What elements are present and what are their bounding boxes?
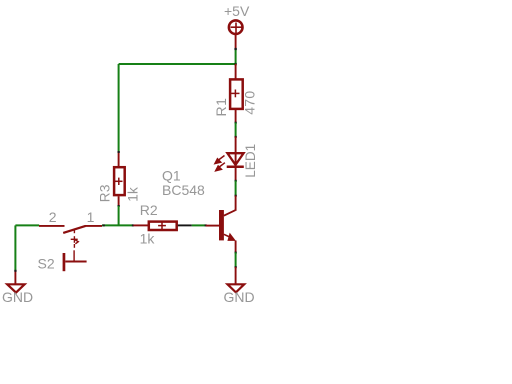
resistor R1 pin top [235, 64, 237, 79]
resistor R2 pin left [133, 224, 148, 226]
junction dot [235, 266, 237, 268]
junction dot [132, 224, 134, 226]
junction dot [235, 136, 237, 138]
+5V supply symbol [229, 20, 243, 34]
svg-text:1: 1 [87, 209, 95, 225]
wire net vertical to left GND [14, 225, 16, 270]
LED1 cathode pin [235, 167, 237, 181]
svg-text:R3: R3 [97, 184, 112, 202]
switch S2 lever [63, 226, 85, 233]
transistor Q1 emitter pin [235, 241, 237, 253]
ground pin right [235, 267, 237, 284]
transistor Q1 collector pin [235, 196, 237, 211]
LED1 light arrow 2 [215, 163, 225, 171]
svg-text:S2: S2 [38, 256, 55, 272]
resistor R1 pin bottom [235, 110, 237, 123]
resistor R1 [230, 79, 243, 109]
LED LED1 [227, 153, 244, 167]
junction dot [235, 180, 237, 182]
svg-text:R1: R1 [213, 98, 229, 117]
junction dot [235, 122, 237, 124]
junction dot [205, 224, 207, 226]
switch S2 pin 2 contact [39, 225, 65, 227]
resistor R2 [149, 222, 177, 230]
wire net R2 to Q1 base [192, 224, 206, 226]
svg-text:R2: R2 [140, 202, 158, 218]
switch S2 pin 1 contact [85, 225, 102, 227]
junction dot [118, 151, 120, 153]
LED1 light arrow 1 [215, 156, 225, 164]
transistor Q1 base pin [206, 225, 219, 227]
wire net R3 to base rail [118, 206, 120, 225]
junction dot [14, 270, 16, 272]
wire net LED1 to Q1 collector [235, 181, 237, 196]
svg-text:470: 470 [241, 91, 257, 115]
svg-text:BC548: BC548 [162, 182, 205, 198]
LED1 anode pin [235, 137, 237, 167]
wire net R1 to LED1 [235, 123, 237, 137]
pin wire from +5V symbol [235, 33, 237, 49]
resistor R3 pin bottom [118, 196, 120, 206]
ground symbol left [7, 284, 24, 292]
junction dot [235, 195, 237, 197]
svg-text:GND: GND [224, 289, 255, 305]
svg-text:GND: GND [2, 289, 33, 305]
ground symbol right [228, 284, 245, 292]
junction dot [234, 48, 236, 50]
wire net emitter to GND [235, 252, 237, 267]
svg-text:LED1: LED1 [243, 144, 258, 178]
svg-text:1k: 1k [140, 230, 156, 246]
wire net vertical left branch [118, 64, 120, 152]
switch S2 actuator [71, 230, 79, 262]
resistor R3 [114, 167, 125, 195]
resistor R3 pin top [118, 152, 120, 167]
svg-text:2: 2 [49, 209, 57, 225]
wire net switch to R2 [102, 224, 133, 226]
junction [234, 63, 236, 65]
wire net horizontal left [15, 224, 39, 226]
svg-text:+5V: +5V [224, 3, 250, 19]
resistor R2 pin right (black segment) [178, 224, 192, 226]
transistor Q1 [219, 210, 236, 241]
junction dot [235, 252, 237, 254]
wire net horizontal top [119, 63, 236, 65]
ground pin left [14, 271, 16, 284]
svg-text:1k: 1k [125, 187, 140, 202]
junction dot [118, 205, 120, 207]
junction dot [103, 224, 105, 226]
switch S2 button [63, 253, 87, 271]
wire net vertical below +5V [235, 49, 237, 64]
